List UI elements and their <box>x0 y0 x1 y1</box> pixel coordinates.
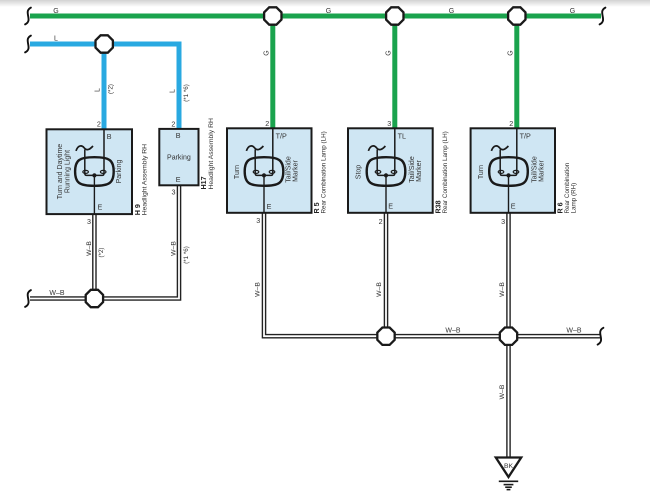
svg-text:W–B: W–B <box>499 384 506 399</box>
svg-text:W–B: W–B <box>86 241 93 256</box>
svg-text:Rear Combination Lamp (LH): Rear Combination Lamp (LH) <box>321 131 328 213</box>
svg-text:Rear Combination Lamp (LH): Rear Combination Lamp (LH) <box>442 131 449 213</box>
svg-text:B: B <box>176 131 181 140</box>
svg-text:W–B: W–B <box>254 282 261 297</box>
svg-text:2: 2 <box>509 119 513 128</box>
svg-text:(*1 *6): (*1 *6) <box>183 84 190 102</box>
svg-text:B: B <box>107 132 112 141</box>
svg-text:Tail/Side: Tail/Side <box>409 156 416 183</box>
svg-text:TL: TL <box>398 131 406 140</box>
svg-text:W–B: W–B <box>499 282 506 297</box>
svg-text:W–B: W–B <box>171 241 178 256</box>
svg-text:2: 2 <box>171 120 175 129</box>
svg-text:3: 3 <box>501 217 505 226</box>
svg-text:Headlight Assembly RH: Headlight Assembly RH <box>208 118 215 189</box>
svg-text:G: G <box>385 50 392 55</box>
svg-text:Turn: Turn <box>234 165 241 179</box>
svg-text:2: 2 <box>97 120 101 129</box>
svg-text:Turn and Daytime: Turn and Daytime <box>57 144 64 199</box>
svg-text:T/P: T/P <box>520 131 531 140</box>
svg-text:W–B: W–B <box>376 282 383 297</box>
svg-text:E: E <box>267 202 272 211</box>
svg-text:Turn: Turn <box>478 165 485 179</box>
svg-text:W–B: W–B <box>566 327 582 334</box>
svg-text:Lamp (RH): Lamp (RH) <box>571 183 578 214</box>
svg-text:W–B: W–B <box>445 327 461 334</box>
svg-text:Parking: Parking <box>116 160 123 184</box>
svg-text:G: G <box>449 8 454 15</box>
svg-text:(*2): (*2) <box>98 248 105 258</box>
svg-text:2: 2 <box>379 217 383 226</box>
svg-text:2: 2 <box>265 119 269 128</box>
svg-text:L: L <box>54 36 58 43</box>
svg-text:L: L <box>170 89 177 93</box>
svg-text:G: G <box>326 8 331 15</box>
svg-text:3: 3 <box>256 216 260 225</box>
svg-text:L: L <box>95 88 102 92</box>
svg-text:(*2): (*2) <box>108 84 115 94</box>
svg-text:G: G <box>507 50 514 55</box>
svg-text:Tail/Side: Tail/Side <box>285 156 292 183</box>
svg-text:Stop: Stop <box>356 165 363 180</box>
svg-text:E: E <box>511 201 516 210</box>
svg-text:3: 3 <box>387 119 391 128</box>
svg-text:G: G <box>570 8 575 15</box>
svg-text:Tail/Side: Tail/Side <box>532 156 539 183</box>
svg-text:Parking: Parking <box>167 155 191 162</box>
svg-text:BK: BK <box>504 463 514 470</box>
svg-text:E: E <box>98 202 103 211</box>
svg-text:E: E <box>388 201 393 210</box>
svg-text:Headlight Assembly RH: Headlight Assembly RH <box>141 144 148 215</box>
svg-text:Marker: Marker <box>292 159 299 181</box>
svg-text:Marker: Marker <box>416 159 423 181</box>
svg-text:G: G <box>53 8 58 15</box>
svg-text:Marker: Marker <box>539 159 546 181</box>
svg-text:3: 3 <box>172 188 176 197</box>
svg-text:(*1 *6): (*1 *6) <box>183 246 190 264</box>
svg-text:W–B: W–B <box>49 290 65 297</box>
svg-text:G: G <box>263 50 270 55</box>
svg-text:3: 3 <box>87 217 91 226</box>
svg-text:E: E <box>176 175 181 184</box>
svg-text:Running Light: Running Light <box>64 150 71 193</box>
svg-text:T/P: T/P <box>276 131 287 140</box>
